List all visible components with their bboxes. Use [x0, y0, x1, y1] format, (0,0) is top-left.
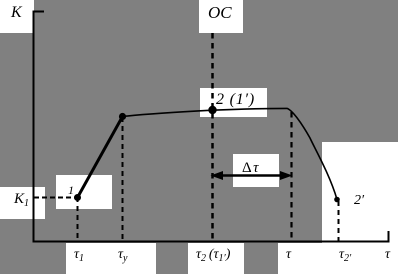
- dashed vertical at tau1: [77, 197, 79, 241]
- white bottom box tau1/tauY: [66, 243, 156, 274]
- dashed vertical OC line at tau2: [211, 33, 214, 241]
- curve: plateau and descent: [123, 108, 338, 199]
- 2 (1') label: [216, 92, 255, 108]
- curve: steep rise segment: [78, 117, 123, 198]
- point 1 dot: [74, 194, 81, 201]
- tau1 tick label: [74, 248, 84, 264]
- white label box for point 2 (1'): [200, 88, 267, 117]
- delta tau label: [242, 161, 260, 176]
- delta tau double arrow: [222, 174, 281, 177]
- axes: y-axis with top hook, x-axis with right hook: [34, 12, 389, 242]
- white bottom box right tau labels: [278, 243, 398, 274]
- K1 label: [14, 192, 29, 209]
- point 2' dot: [334, 197, 340, 203]
- tau axis label: [385, 248, 390, 262]
- white label box for K1: [0, 187, 45, 219]
- white label box for delta tau: [233, 154, 279, 187]
- dashed vertical at tau2': [338, 201, 340, 241]
- tauY tick label: [118, 248, 127, 264]
- white label box for point 1: [56, 175, 112, 209]
- OC label: [208, 4, 232, 21]
- point 2 dot: [208, 106, 216, 114]
- tau tick label: [286, 248, 291, 262]
- tau2(tau1') tick label: [196, 248, 230, 264]
- dashed vertical at tau: [290, 112, 292, 241]
- K axis label: [11, 5, 22, 21]
- white bottom box tau2(tau1'): [188, 243, 244, 274]
- dashed vertical at tauY: [122, 117, 124, 241]
- dashed horizontal from K1 to point 1: [34, 197, 77, 199]
- knee dot at tauY: [119, 113, 126, 120]
- point 1 label: [68, 184, 74, 196]
- white label box for K axis label: [0, 0, 34, 33]
- 2' label: [354, 194, 364, 208]
- white box right side around point 2': [322, 142, 398, 243]
- tau2' tick label: [339, 248, 351, 264]
- white label box for OC: [199, 0, 243, 33]
